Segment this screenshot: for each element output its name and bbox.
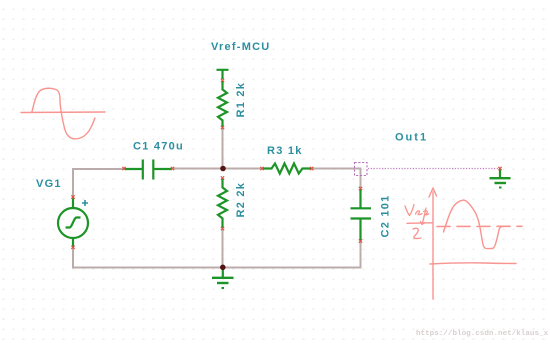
label R3 1k <box>267 145 303 157</box>
resistor R3 <box>263 164 312 174</box>
svg-text:https://blog.csdn.net/klaus_x: https://blog.csdn.net/klaus_x <box>416 330 549 338</box>
wire <box>72 168 74 197</box>
label R1 2k <box>235 82 247 118</box>
wire <box>222 229 224 268</box>
svg-text:R2 2k: R2 2k <box>235 182 247 218</box>
capacitor C1 <box>125 160 172 180</box>
wire <box>72 248 74 268</box>
selection square at node Out1 <box>355 163 368 176</box>
svg-text:C2 101: C2 101 <box>380 195 392 238</box>
resistor R1 <box>218 81 227 128</box>
svg-text:VG1: VG1 <box>36 178 62 190</box>
label C1 470u <box>133 141 184 153</box>
terminal tick C1 left <box>122 167 125 170</box>
wire <box>72 242 361 268</box>
resistor R2 <box>218 179 227 228</box>
label Vref-MCU <box>211 41 271 53</box>
terminal tick C2 bottom <box>359 239 362 242</box>
voltage source VG1 <box>58 198 88 248</box>
svg-text:R1 2k: R1 2k <box>235 82 247 118</box>
terminal tick VG1 top <box>71 195 74 198</box>
label R2 2k <box>235 182 247 218</box>
terminal tick C1 right <box>171 167 174 170</box>
terminal tick VG1 bottom <box>71 246 74 249</box>
junction node (mid) <box>220 166 226 172</box>
ground (center) <box>212 269 234 288</box>
label C2 101 <box>380 195 392 238</box>
terminal tick R1 bottom <box>221 126 224 129</box>
svg-text:C1 470u: C1 470u <box>133 141 184 153</box>
svg-text:R3 1k: R3 1k <box>267 145 303 157</box>
watermark <box>416 330 549 338</box>
svg-text:Vref-MCU: Vref-MCU <box>211 41 271 53</box>
label Out1 <box>395 132 428 144</box>
wire <box>312 169 361 189</box>
terminal tick Out1 end <box>498 167 501 170</box>
terminal tick R2 top <box>221 176 224 179</box>
annotation: dashed level Vref/2 <box>437 225 522 227</box>
plus sign of VG1 <box>82 200 88 206</box>
node Vref-MCU terminal <box>217 70 229 79</box>
terminal tick R3 left <box>260 167 263 170</box>
ground (right) <box>490 170 511 188</box>
junction node (bottom/ground) <box>220 265 226 271</box>
annotation: output graph axis <box>429 188 437 299</box>
capacitor C2 <box>351 189 372 241</box>
terminal tick R3 right <box>310 167 313 170</box>
terminal tick R2 bottom <box>221 227 224 230</box>
wire <box>222 128 224 169</box>
svg-text:Out1: Out1 <box>395 132 428 144</box>
wire <box>172 168 262 170</box>
dashed net wire to Out1 ground <box>368 168 499 170</box>
annotation: output sine sketch <box>444 200 504 248</box>
wire <box>73 168 125 170</box>
terminal tick C2 top <box>359 187 362 190</box>
annotation: Vref label <box>405 205 432 239</box>
annotation: output x line <box>430 263 516 264</box>
annotation: input sine sketch <box>21 88 105 139</box>
terminal tick R1 top <box>221 79 224 82</box>
label VG1 <box>36 178 62 190</box>
